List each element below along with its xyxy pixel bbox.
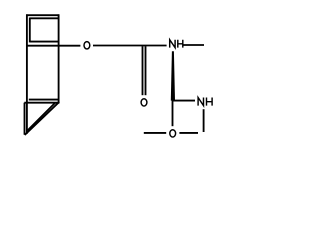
wire: cage square bottom inner edge [30, 41, 59, 43]
wire: triangle hypotenuse inner (double bond inner line) [28, 103, 56, 131]
wire: cage right long edge [58, 14, 60, 102]
atom label: ester O [84, 42, 90, 49]
wire: ring right edge below NH [203, 109, 205, 132]
wire: cage left outer long edge [26, 14, 28, 133]
wire: bond ester O to carbonyl C to NH [93, 45, 167, 47]
wire: bond methyl to ring O [144, 132, 166, 134]
wire: bond NH to methyl [184, 44, 205, 46]
wire: ring bottom edge from O [179, 132, 198, 134]
wire: ring top edge C to NH [172, 100, 195, 102]
wire: C=O double bond line 2 [145, 46, 147, 95]
wire: cage top outer edge [26, 14, 59, 16]
wire: triangle hypotenuse outer [25, 102, 60, 135]
wire: C=O double bond line 1 [142, 46, 144, 95]
atom label: ring NH [198, 98, 212, 106]
wire: triangle front left edge [24, 103, 26, 135]
wire: triangle top lower edge [24, 102, 59, 104]
wire: triangle top upper edge [29, 99, 60, 101]
wire: cage top inner edge (double bond inner line) [30, 17, 59, 19]
wire: cage left inner edge (double bond inner line) [29, 18, 31, 43]
wire: ring left edge C to O [172, 100, 174, 126]
atom label: ring O [170, 130, 176, 137]
atom label: carbonyl O [141, 99, 147, 106]
wedge bond NH down to ring C [171, 51, 175, 100]
wire: bond cage to ester O [27, 45, 81, 47]
atom label: amide NH [170, 40, 183, 48]
